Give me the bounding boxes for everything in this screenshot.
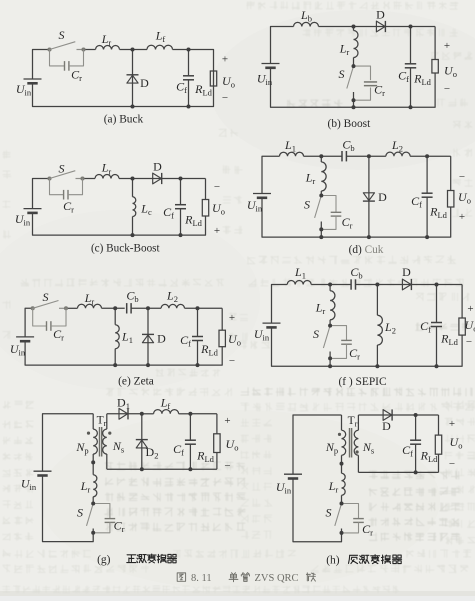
- inductor Lf (a): [147, 45, 173, 49]
- inductor Lr (a): [96, 46, 120, 50]
- transformer Tr (h): secondary winding Ns: [354, 415, 358, 472]
- switch S (e): [31, 301, 68, 311]
- svg-text:(e) Zeta: (e) Zeta: [118, 375, 154, 387]
- capacitor Cr (d) parallel loop: [321, 196, 341, 230]
- switch S (d): [315, 196, 322, 238]
- capacitor Cr (f) parallel loop: [330, 326, 352, 359]
- svg-text:+: +: [229, 312, 235, 324]
- svg-text:D: D: [376, 8, 385, 22]
- diode D (b): [376, 21, 385, 32]
- svg-text:(f ) SEPIC: (f ) SEPIC: [338, 376, 386, 388]
- battery Uin (a): [24, 79, 42, 83]
- svg-text:S: S: [326, 506, 332, 520]
- svg-text:S: S: [304, 198, 310, 212]
- transformer Tr (h): primary winding Np: [342, 415, 346, 464]
- nodes (g): [91, 412, 192, 535]
- svg-text:8. 11: 8. 11: [191, 573, 212, 584]
- capacitor Cr (g) parallel loop: [93, 504, 115, 533]
- capacitor Cr (e) parallel loop: [33, 308, 66, 331]
- svg-text:S: S: [59, 162, 65, 176]
- inductor Lb (b): [294, 22, 319, 26]
- inductor Lr (b) vertical: [354, 27, 359, 67]
- svg-text:(b) Boost: (b) Boost: [328, 118, 372, 130]
- battery Uin (g): [34, 471, 52, 475]
- diode D2 (g) vertical: [136, 414, 148, 469]
- svg-text:D: D: [402, 265, 411, 279]
- capacitor Cr (a) parallel loop: [50, 50, 84, 71]
- svg-text:−: −: [466, 336, 472, 348]
- diode D (f): [402, 279, 411, 290]
- inductor L2 (e): [161, 304, 184, 308]
- diode D (e) vertical: [142, 308, 154, 365]
- battery Uin (h): [284, 474, 302, 478]
- inductor Lr (e): [78, 304, 102, 308]
- circuit (e) Zeta: outer loop wires: [25, 308, 222, 365]
- svg-text:D: D: [382, 419, 391, 433]
- circuit (f) SEPIC: outer loop wires: [272, 285, 463, 367]
- diode D (d) vertical: [363, 156, 375, 237]
- diode D (a) freewheeling: [127, 50, 139, 107]
- capacitor Cf (h): [410, 415, 421, 472]
- svg-text:S: S: [339, 67, 345, 81]
- svg-text:(h): (h): [326, 555, 340, 567]
- resistor RLd (h): [435, 435, 441, 454]
- output wires (h): [358, 415, 438, 472]
- svg-text:(g): (g): [97, 554, 111, 566]
- capacitor Cf (f): [431, 285, 442, 367]
- svg-text:−: −: [224, 460, 230, 472]
- polarity dots Tr (h): [338, 433, 359, 454]
- inductor Lr (d) vertical: [321, 156, 326, 195]
- svg-text:−: −: [459, 171, 465, 183]
- svg-text:−: −: [222, 92, 228, 104]
- svg-text:S: S: [59, 28, 65, 42]
- transformer Tr (g): primary winding Np: [93, 414, 97, 463]
- capacitor Cf (e): [192, 308, 203, 365]
- inductor L1 (d): [280, 152, 304, 156]
- capacitor Cb (d): [341, 151, 343, 161]
- diode D1 (g): [107, 408, 142, 419]
- svg-text:−: −: [444, 83, 450, 95]
- battery Uin (e): [16, 337, 34, 341]
- resistor RLd (f): [459, 318, 465, 335]
- svg-text:+: +: [459, 211, 465, 223]
- battery Uin (d): [253, 194, 271, 198]
- circuit (h) flyback: primary loop wires: [293, 415, 342, 542]
- label Uo and polarity (f): [465, 303, 475, 348]
- inductor L2 (f) vertical: [377, 285, 382, 367]
- switch S (h): [335, 504, 342, 533]
- diode D (c): [153, 173, 162, 184]
- svg-text:(c) Buck-Boost: (c) Buck-Boost: [91, 243, 161, 255]
- capacitor Cb (e): [126, 303, 128, 313]
- svg-text:S: S: [43, 290, 49, 304]
- nodes (e): [113, 306, 199, 367]
- label Uo and polarity (g): [224, 415, 238, 472]
- resistor RLd (g): [214, 434, 220, 453]
- capacitor Cf (b): [405, 27, 416, 108]
- circuit (b) Boost: outer loop wires: [271, 27, 436, 108]
- label Uo and polarity (e): [228, 312, 241, 367]
- battery Uin (b): [262, 64, 280, 68]
- nodes (f): [328, 283, 438, 369]
- inductor Lf (g): [142, 410, 191, 414]
- circuit (c) Buck-Boost: outer loop wires: [33, 179, 206, 236]
- label Uo and polarity (h): [449, 418, 463, 470]
- inductor L1 (e) vertical: [115, 308, 119, 365]
- transformer Tr (g): secondary winding Ns: [103, 414, 107, 469]
- nodes (b): [352, 25, 413, 110]
- svg-text:(a) Buck: (a) Buck: [104, 114, 144, 126]
- svg-text:S: S: [77, 506, 83, 520]
- capacitor Cr (c) parallel loop: [50, 179, 83, 200]
- svg-text:ZVS QRC: ZVS QRC: [255, 573, 299, 584]
- inductor Lr (c): [95, 175, 119, 179]
- svg-text:−: −: [449, 458, 455, 470]
- inductor L1 (f): [287, 281, 311, 285]
- figure caption: Fig 8.11 single-switch ZVS QRC family: [177, 573, 315, 585]
- svg-text:S: S: [313, 327, 319, 341]
- resistor RLd (e): [219, 330, 225, 347]
- svg-text:+: +: [224, 415, 230, 427]
- svg-text:+: +: [222, 54, 228, 66]
- inductor Lr (h) vertical: [342, 464, 346, 504]
- capacitor Cr (h) parallel loop: [342, 504, 364, 533]
- svg-text:D: D: [153, 160, 162, 174]
- svg-text:+: +: [467, 303, 473, 315]
- switch S (b): [347, 66, 354, 107]
- svg-text:+: +: [444, 40, 450, 52]
- capacitor Cr (b) parallel loop: [354, 66, 378, 100]
- capacitor Cb (f): [350, 279, 352, 289]
- inductor Lc (c) vertical: [133, 179, 136, 236]
- capacitor Cf (c): [175, 179, 186, 236]
- svg-text:D: D: [157, 332, 166, 346]
- switch S (g): [87, 504, 94, 533]
- label Uo and polarity (a): [222, 54, 235, 105]
- inductor Lr (f) vertical: [330, 285, 335, 326]
- resistor RLd (b): [432, 60, 438, 74]
- svg-text:+: +: [449, 418, 455, 430]
- capacitor Cf (g): [185, 414, 196, 469]
- switch S (c): [47, 171, 84, 181]
- resistor RLd (d): [448, 191, 454, 208]
- svg-text:D: D: [140, 76, 149, 90]
- inductor Lr (g) vertical: [93, 462, 97, 503]
- label Uo and polarity (d): [458, 171, 471, 223]
- polarity dots Tr (g): [87, 432, 112, 435]
- circuit (d) Cuk: outer loop wires: [262, 156, 451, 237]
- diode D (h): [358, 409, 415, 420]
- output wires (g): [107, 414, 217, 469]
- capacitor Cf (a): [183, 50, 194, 107]
- circuit (a) Buck: wire left/top/bottom/right loop: [33, 50, 214, 107]
- label Uo and polarity (b): [444, 40, 457, 95]
- resistor RLd (c): [202, 200, 208, 217]
- transformer Tr (h): core: [350, 428, 352, 458]
- battery Uin (c): [24, 209, 42, 213]
- svg-text:(d) Cuk: (d) Cuk: [349, 244, 384, 256]
- label Uo and polarity (c): [212, 181, 225, 237]
- circuit (g) forward: primary loop wires: [43, 414, 94, 542]
- svg-text:−: −: [229, 355, 235, 367]
- resistor RLd (a): [210, 71, 216, 86]
- transformer Tr (g): core: [100, 427, 102, 457]
- svg-text:−: −: [214, 181, 220, 193]
- switch S (f): [323, 326, 330, 367]
- capacitor Cf (d): [422, 156, 433, 237]
- nodes (c): [131, 177, 183, 238]
- battery Uin (f): [263, 323, 281, 327]
- inductor L2 (d): [386, 152, 410, 156]
- nodes (a): [131, 48, 191, 109]
- svg-text:D: D: [378, 190, 387, 204]
- nodes (d): [319, 154, 429, 239]
- nodes (h): [340, 413, 418, 535]
- svg-text:+: +: [214, 225, 220, 237]
- switch S (a): [47, 42, 85, 52]
